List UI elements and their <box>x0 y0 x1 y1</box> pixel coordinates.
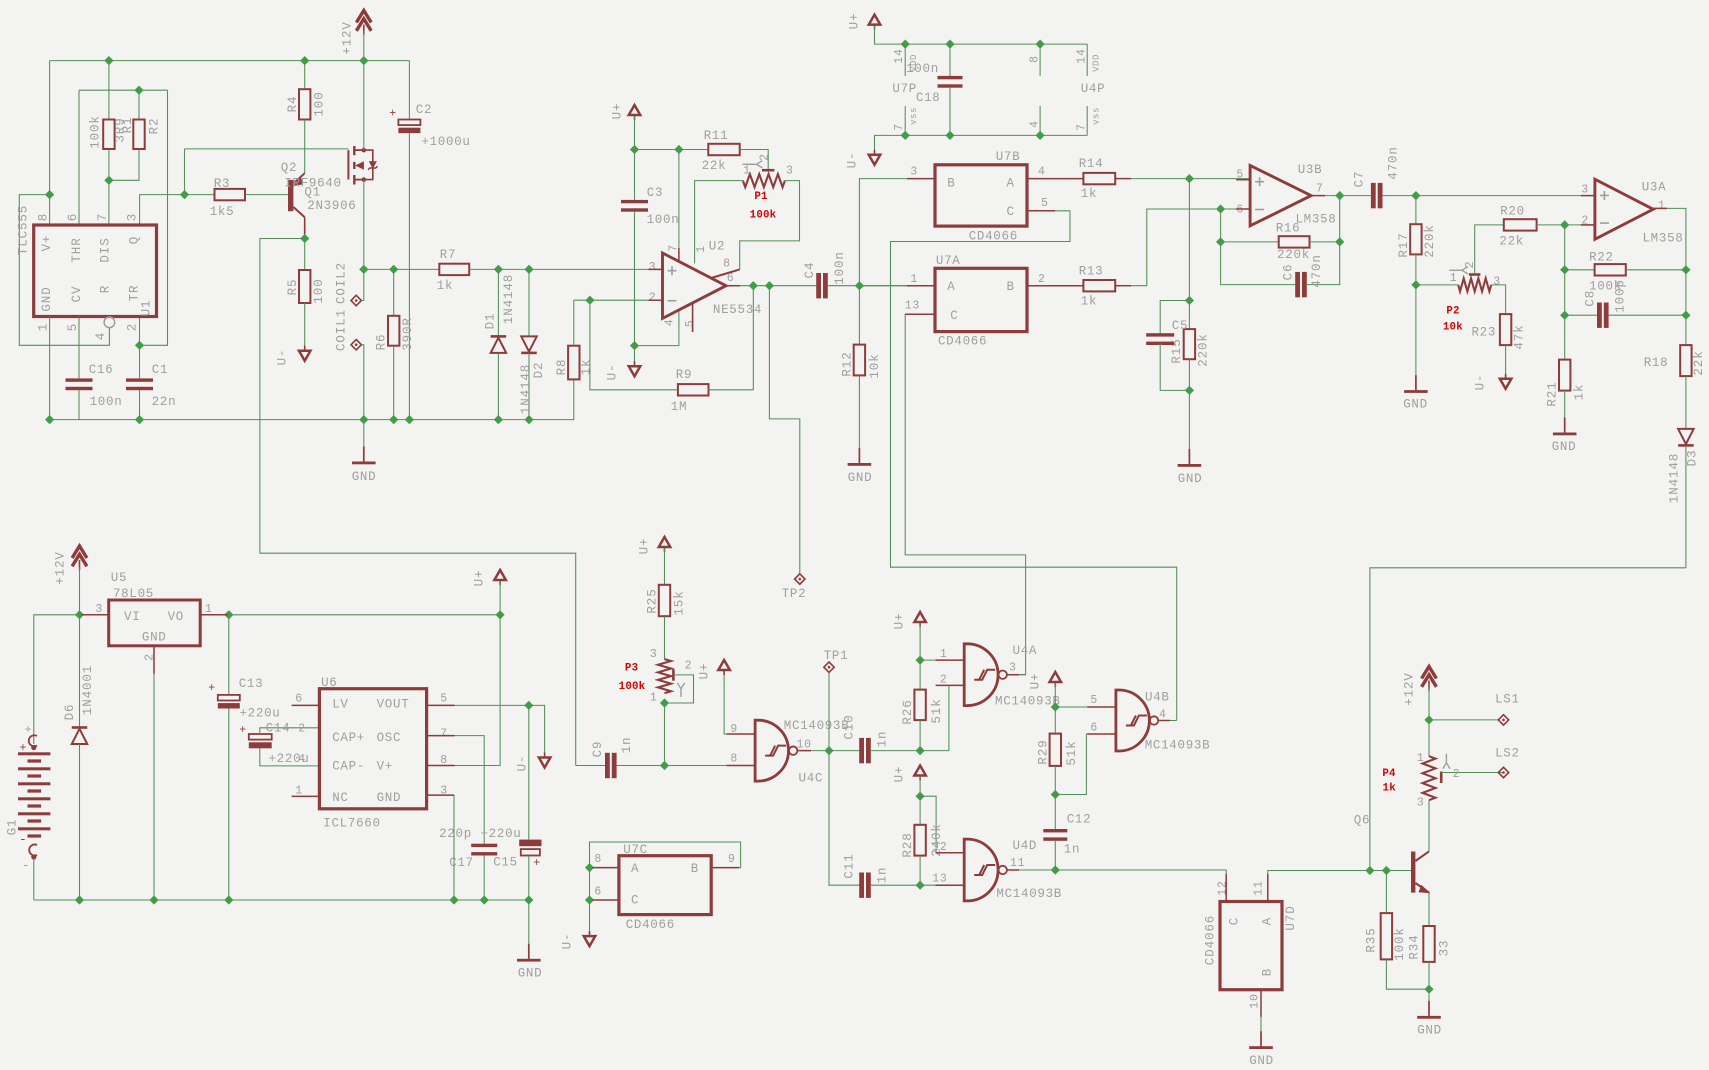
resistor R13 <box>1083 280 1115 291</box>
svg-text:U7D: U7D <box>1284 905 1298 930</box>
op-amp U2 NE5534 <box>663 253 727 318</box>
svg-text:LM358: LM358 <box>1295 213 1336 227</box>
svg-text:Q2: Q2 <box>281 161 297 175</box>
power pin U3P V- <box>1039 106 1041 135</box>
svg-text:5: 5 <box>684 319 697 327</box>
node junction fb right <box>1335 237 1344 246</box>
svg-text:U4P: U4P <box>1081 82 1106 96</box>
capacitor C18 <box>949 44 951 76</box>
supply U- arrow (U6) <box>539 758 551 768</box>
ground symbol GND (coil) <box>363 420 365 458</box>
wire logic VSS rail <box>875 135 1088 155</box>
svg-text:10: 10 <box>797 739 812 752</box>
svg-text:78L05: 78L05 <box>113 587 154 601</box>
svg-text:THR: THR <box>70 237 84 262</box>
svg-text:U2: U2 <box>709 240 725 254</box>
svg-text:NC: NC <box>332 791 348 805</box>
svg-text:R26: R26 <box>901 699 915 724</box>
svg-text:R12: R12 <box>840 351 854 376</box>
wire -in vertical <box>1564 225 1566 360</box>
resistor R29 <box>1054 707 1056 734</box>
svg-text:9: 9 <box>728 853 736 866</box>
svg-text:2: 2 <box>685 659 693 672</box>
svg-text:33: 33 <box>1437 940 1451 957</box>
svg-text:TR: TR <box>127 285 141 302</box>
wire net +12V top rail <box>50 60 410 62</box>
svg-text:470n: 470n <box>1310 254 1324 288</box>
svg-text:MC14093B: MC14093B <box>1145 739 1211 753</box>
potentiometer P3 <box>658 659 671 693</box>
wire U6 V+ pin8 <box>427 615 501 766</box>
power pin U4P VDD <box>1086 44 1088 76</box>
svg-text:U-: U- <box>560 933 574 950</box>
ground symbol GND (R17) <box>1415 375 1417 390</box>
svg-text:8: 8 <box>1028 55 1041 63</box>
svg-text:U6: U6 <box>321 676 337 690</box>
svg-text:R23: R23 <box>1471 326 1496 340</box>
wire U4A pin1 <box>920 659 964 661</box>
svg-text:14: 14 <box>893 48 906 64</box>
capacitor C12 <box>1054 795 1056 830</box>
coil pin COIL2 <box>351 295 361 305</box>
node junction gnd U6pin3 <box>449 895 458 904</box>
svg-text:TP1: TP1 <box>824 649 849 663</box>
svg-text:1: 1 <box>1417 752 1425 765</box>
svg-text:C3: C3 <box>647 186 663 200</box>
svg-text:7: 7 <box>1316 183 1324 196</box>
wire U6 pin1 stub <box>292 795 320 797</box>
svg-text:100p: 100p <box>1613 279 1627 313</box>
svg-text:1: 1 <box>743 165 751 178</box>
wire reset loop <box>19 195 109 346</box>
svg-text:R7: R7 <box>440 248 456 262</box>
node junction R17-P2 <box>1411 280 1420 289</box>
svg-text:8: 8 <box>730 752 738 765</box>
svg-text:LS1: LS1 <box>1495 693 1520 707</box>
wire pin1 to ground rail <box>49 317 51 420</box>
svg-text:4: 4 <box>1038 165 1046 178</box>
svg-text:100n: 100n <box>647 213 680 227</box>
svg-text:R5: R5 <box>286 279 300 296</box>
svg-text:3: 3 <box>1493 276 1501 289</box>
svg-text:P4: P4 <box>1382 768 1396 780</box>
resistor R15 parallel C5 <box>1188 179 1190 330</box>
node junction out-R9 <box>749 281 758 290</box>
svg-text:1k: 1k <box>1081 295 1097 309</box>
svg-text:+220u: +220u <box>480 827 521 841</box>
svg-text:4: 4 <box>298 753 306 766</box>
svg-text:C5: C5 <box>1172 319 1188 333</box>
svg-text:1n: 1n <box>875 867 889 884</box>
ground symbol GND (C5) <box>1188 449 1190 464</box>
svg-text:U4A: U4A <box>1013 644 1038 658</box>
test point TP1 <box>828 672 830 750</box>
node junction R15 top <box>1185 296 1194 305</box>
node junction gnd-coil <box>359 415 368 424</box>
svg-text:22n: 22n <box>152 395 177 409</box>
wire collector to C9 route <box>260 239 576 766</box>
nand gate U4B MC14093B <box>1116 690 1150 751</box>
svg-text:B: B <box>691 862 699 876</box>
transistor Q1 2N3906 <box>288 180 293 211</box>
svg-text:C8: C8 <box>1583 290 1597 307</box>
capacitor C10 <box>859 738 864 763</box>
svg-text:DIS: DIS <box>99 237 113 262</box>
svg-text:1M: 1M <box>671 400 687 414</box>
svg-text:7: 7 <box>1075 123 1088 131</box>
svg-text:R11: R11 <box>704 129 729 143</box>
svg-text:+220u: +220u <box>239 707 280 721</box>
wire TP2 route <box>769 286 799 574</box>
svg-text:8: 8 <box>594 853 602 866</box>
pin stubs U7B <box>907 178 935 180</box>
svg-text:+: + <box>533 857 541 870</box>
svg-text:1: 1 <box>295 785 303 798</box>
svg-text:U1: U1 <box>139 300 153 317</box>
svg-text:1N4148: 1N4148 <box>519 364 533 414</box>
capacitor C8 <box>1565 314 1597 316</box>
svg-text:C13: C13 <box>239 677 264 691</box>
svg-text:1n: 1n <box>620 737 634 754</box>
node junction gnd-D2 <box>524 415 533 424</box>
potentiometer P4 <box>1428 720 1430 757</box>
svg-text:5: 5 <box>440 693 448 706</box>
svg-text:14: 14 <box>1075 48 1088 64</box>
node junction R22 left <box>1560 265 1569 274</box>
wire THR to pin6 <box>78 90 80 225</box>
svg-text:U+: U+ <box>472 570 486 587</box>
svg-text:GND: GND <box>1417 1024 1442 1038</box>
svg-text:U3B: U3B <box>1298 163 1323 177</box>
svg-text:B: B <box>1006 280 1014 294</box>
node junction vss U7P <box>901 131 910 140</box>
svg-text:MC14093B: MC14093B <box>784 719 850 733</box>
svg-text:R16: R16 <box>1276 222 1301 236</box>
node junction coil-R7 <box>389 265 398 274</box>
svg-text:D1: D1 <box>483 313 497 330</box>
node junction +in D2 <box>524 265 533 274</box>
svg-text:13: 13 <box>932 873 947 886</box>
svg-text:100k: 100k <box>750 209 777 221</box>
node junction U+ R29 <box>1051 702 1060 711</box>
pin stubs U3B <box>1236 179 1250 181</box>
svg-text:22k: 22k <box>1692 350 1706 375</box>
svg-text:A: A <box>1006 177 1014 191</box>
speaker pin LS2 <box>1498 767 1508 777</box>
power pin U7P VDD <box>904 44 906 76</box>
wire P3 to C9 line <box>664 703 666 766</box>
wire U5 output <box>200 614 500 616</box>
supply U- arrow (R5) <box>299 351 311 361</box>
node junction R29-C12 <box>1051 790 1060 799</box>
resistor R7 <box>439 264 469 275</box>
wire supply ground rail <box>34 899 529 901</box>
node junction +in D1 <box>494 265 503 274</box>
supply U- arrow (U7C) <box>584 936 596 946</box>
node junction U+ R28 <box>916 792 925 801</box>
power +12V symbol (supply) <box>72 546 87 558</box>
svg-text:10k: 10k <box>1443 322 1463 334</box>
svg-text:1k: 1k <box>1081 187 1097 201</box>
resistor R9 <box>590 300 678 390</box>
resistor R23 <box>1500 314 1511 345</box>
pin stubs U7D <box>1225 874 1227 902</box>
capacitor C7 <box>1371 183 1376 208</box>
svg-text:U4C: U4C <box>799 772 824 786</box>
wire U7B pin3 <box>859 179 935 286</box>
wire logic VDD rail <box>875 26 1088 44</box>
IC U6 ICL7660 <box>319 689 426 809</box>
svg-text:CAP+: CAP+ <box>332 731 365 745</box>
node junction U+ pin1 <box>916 656 925 665</box>
node junction base R35 <box>1382 866 1391 875</box>
wire U3B -in <box>1147 208 1250 210</box>
diode D6 1N4001 <box>79 615 81 728</box>
pin stubs U6 <box>292 704 320 706</box>
svg-text:R28: R28 <box>901 832 915 857</box>
node junction U4C out <box>824 746 833 755</box>
wire R11 to P1 wiper <box>740 150 769 172</box>
svg-text:P1: P1 <box>754 191 768 203</box>
svg-text:1n: 1n <box>875 731 889 748</box>
wire ground rail <box>50 379 574 419</box>
svg-text:Q6: Q6 <box>1354 814 1370 828</box>
resistor R6 <box>364 268 440 270</box>
svg-text:C18: C18 <box>916 91 941 105</box>
resistor R4 <box>304 61 306 90</box>
node junction gnd-C2 <box>405 415 414 424</box>
svg-text:6: 6 <box>1090 721 1098 734</box>
diode D1 1N4148 <box>497 269 499 336</box>
wire U6 VOUT to U- <box>427 704 529 706</box>
ground symbol GND (R21) <box>1564 418 1566 433</box>
pin stubs U2 <box>649 268 663 270</box>
resistor R14 <box>1083 173 1115 184</box>
svg-text:100k: 100k <box>619 681 646 693</box>
svg-text:22k: 22k <box>1499 235 1524 249</box>
svg-text:5: 5 <box>1090 694 1098 707</box>
svg-text:3: 3 <box>786 165 794 178</box>
svg-text:+: + <box>208 682 216 695</box>
svg-text:6: 6 <box>66 213 80 221</box>
node junction gnd-C1 <box>135 415 144 424</box>
svg-text:C7: C7 <box>1352 171 1366 188</box>
svg-text:V+: V+ <box>40 235 54 252</box>
pin 4 inversion bubble <box>104 317 115 328</box>
svg-text:R4: R4 <box>286 96 300 113</box>
svg-text:CD4066: CD4066 <box>626 918 675 932</box>
pin stubs U7A <box>907 285 935 287</box>
supply U+ arrow (U4D) <box>914 766 926 776</box>
regulator U5 78L05 <box>109 600 201 646</box>
svg-text:R21: R21 <box>1545 381 1559 406</box>
node junction gnd-D1 <box>494 415 503 424</box>
svg-text:11: 11 <box>1010 857 1025 870</box>
svg-text:+: + <box>389 108 397 121</box>
wire P2 to R23 <box>1491 285 1505 314</box>
svg-text:GND: GND <box>40 286 54 311</box>
svg-text:U-: U- <box>1473 374 1487 391</box>
wire U4C out to C10 <box>829 750 860 752</box>
svg-text:7: 7 <box>440 727 448 740</box>
wire U4A output route <box>1007 674 1026 676</box>
svg-text:R6: R6 <box>374 334 388 351</box>
svg-text:1: 1 <box>1450 272 1458 285</box>
resistor R1 <box>108 61 110 120</box>
wire U+ to R11/C3 <box>634 116 636 150</box>
node junction TR-C1 <box>135 341 144 350</box>
wire emitter node to gnd <box>1428 989 1430 1016</box>
svg-text:Q: Q <box>127 236 141 244</box>
svg-text:2: 2 <box>125 323 139 331</box>
svg-text:6: 6 <box>1236 203 1244 216</box>
wire U5 gnd pin <box>153 646 155 900</box>
wire THR-TR loop <box>140 90 168 345</box>
svg-text:VO: VO <box>168 610 184 624</box>
svg-text:C14: C14 <box>266 722 291 736</box>
svg-text:R35: R35 <box>1364 927 1378 952</box>
node junction C10-R26 <box>916 746 925 755</box>
svg-text:R17: R17 <box>1397 232 1411 257</box>
IC U1 TLC555 <box>34 225 157 317</box>
capacitor C11 <box>859 873 864 898</box>
wire U4C pin9 to U+ <box>724 671 755 734</box>
svg-text:1k5: 1k5 <box>210 205 235 219</box>
svg-text:V+: V+ <box>377 760 393 774</box>
svg-text:3: 3 <box>910 165 918 178</box>
capacitor C13 electrolytic <box>228 615 230 695</box>
ground symbol GND (supply) <box>528 900 530 959</box>
svg-text:1N4001: 1N4001 <box>81 665 95 715</box>
wire R17 to ground <box>1415 285 1417 389</box>
svg-text:R25: R25 <box>645 588 659 613</box>
capacitor C9 <box>576 765 605 767</box>
svg-text:U+: U+ <box>697 663 711 680</box>
svg-text:12: 12 <box>1216 880 1229 896</box>
svg-text:R8: R8 <box>555 359 569 376</box>
svg-text:2: 2 <box>1038 273 1046 286</box>
coil pin COIL1 <box>351 340 361 350</box>
wire U3B output <box>1311 195 1371 197</box>
capacitor C1 <box>139 345 141 378</box>
svg-text:8: 8 <box>723 257 731 270</box>
node junction gnd-pin1 <box>45 415 54 424</box>
svg-text:GND: GND <box>352 470 377 484</box>
svg-text:LM358: LM358 <box>1642 232 1683 246</box>
node junction base D3 <box>1365 866 1374 875</box>
node junction U+ C3 <box>630 145 639 154</box>
svg-text:U+: U+ <box>637 538 651 555</box>
resistor R16 feedback <box>1220 209 1222 242</box>
pin stubs U5 <box>82 614 109 616</box>
svg-text:C12: C12 <box>1067 813 1092 827</box>
svg-text:B: B <box>947 177 955 191</box>
svg-text:47k: 47k <box>1512 324 1526 349</box>
svg-text:100n: 100n <box>833 251 847 285</box>
speaker pin LS1 <box>1429 719 1498 721</box>
node junction rail-R4 <box>300 56 309 65</box>
svg-text:6: 6 <box>594 886 602 899</box>
potentiometer P1 <box>762 169 774 172</box>
svg-text:1: 1 <box>695 245 708 253</box>
transistor Q2 IRF9640 p-mosfet <box>347 150 349 179</box>
resistor R34 <box>1423 926 1434 962</box>
svg-text:U4D: U4D <box>1013 839 1038 853</box>
svg-text:vss: vss <box>1091 107 1101 125</box>
svg-text:R: R <box>99 285 113 293</box>
svg-text:R34: R34 <box>1407 934 1421 959</box>
svg-text:C: C <box>631 894 639 908</box>
wire U7D pin11 to Q6 base <box>1268 871 1411 902</box>
node junction R1-R2 DIS <box>104 176 113 185</box>
svg-text:1k: 1k <box>1383 783 1397 795</box>
wire U7A pin13 control route <box>905 314 1025 674</box>
resistor R28 <box>919 796 921 825</box>
svg-text:LS2: LS2 <box>1495 747 1520 761</box>
node junction base net <box>180 190 189 199</box>
node junction vdd U3P <box>1036 40 1045 49</box>
supply U+ arrow (U4C) <box>718 660 730 670</box>
svg-text:U-: U- <box>845 152 859 169</box>
svg-text:TLC555: TLC555 <box>16 205 30 255</box>
node junction drain-coil <box>359 265 368 274</box>
node junction out fb <box>1335 191 1344 200</box>
svg-text:100: 100 <box>312 278 326 303</box>
pin 5 stub U2 <box>692 303 694 332</box>
diode D3 1N4148 <box>1678 429 1694 444</box>
node junction U7C pin6 <box>585 895 594 904</box>
svg-text:51k: 51k <box>1065 740 1079 765</box>
svg-text:2: 2 <box>1464 261 1477 269</box>
svg-text:220p: 220p <box>439 827 472 841</box>
svg-text:U+: U+ <box>610 103 624 120</box>
analog switch U7D CD4066 <box>1220 902 1282 990</box>
svg-text:COIL2: COIL2 <box>334 262 348 304</box>
node junction vdd C18 <box>945 40 954 49</box>
svg-text:OSC: OSC <box>377 731 402 745</box>
svg-text:C: C <box>1006 205 1014 219</box>
resistor R22 <box>1565 269 1595 271</box>
ground symbol GND (R12) <box>858 448 860 463</box>
nand gate U4C MC14093B <box>755 720 788 781</box>
node junction out-R22 <box>1681 265 1690 274</box>
svg-text:3: 3 <box>1009 662 1017 675</box>
svg-text:7: 7 <box>893 123 906 131</box>
supply U+ arrow (U6) <box>494 570 506 580</box>
svg-text:GND: GND <box>142 631 167 645</box>
svg-text:CD4066: CD4066 <box>938 335 987 349</box>
svg-text:3: 3 <box>125 213 139 221</box>
svg-text:A: A <box>1260 917 1274 925</box>
svg-text:1k: 1k <box>1572 384 1586 401</box>
svg-text:2: 2 <box>759 153 772 161</box>
svg-text:220k: 220k <box>1423 224 1437 258</box>
pin stubs U7C <box>593 867 619 869</box>
svg-text:U+: U+ <box>892 613 906 630</box>
svg-text:4: 4 <box>94 332 108 340</box>
wire U4C out to C11 <box>829 751 860 886</box>
node junction rail-Q2 source <box>359 56 368 65</box>
resistor R26 <box>919 660 921 690</box>
node junction vss C18 <box>945 131 954 140</box>
wire Q6 emitter <box>1428 893 1430 926</box>
node junction R14-R15 <box>1185 174 1194 183</box>
resistor R35 <box>1385 871 1387 914</box>
node junction vdd U7P <box>901 40 910 49</box>
svg-text:1: 1 <box>940 648 948 661</box>
svg-text:GND: GND <box>848 471 873 485</box>
svg-text:C16: C16 <box>89 363 114 377</box>
